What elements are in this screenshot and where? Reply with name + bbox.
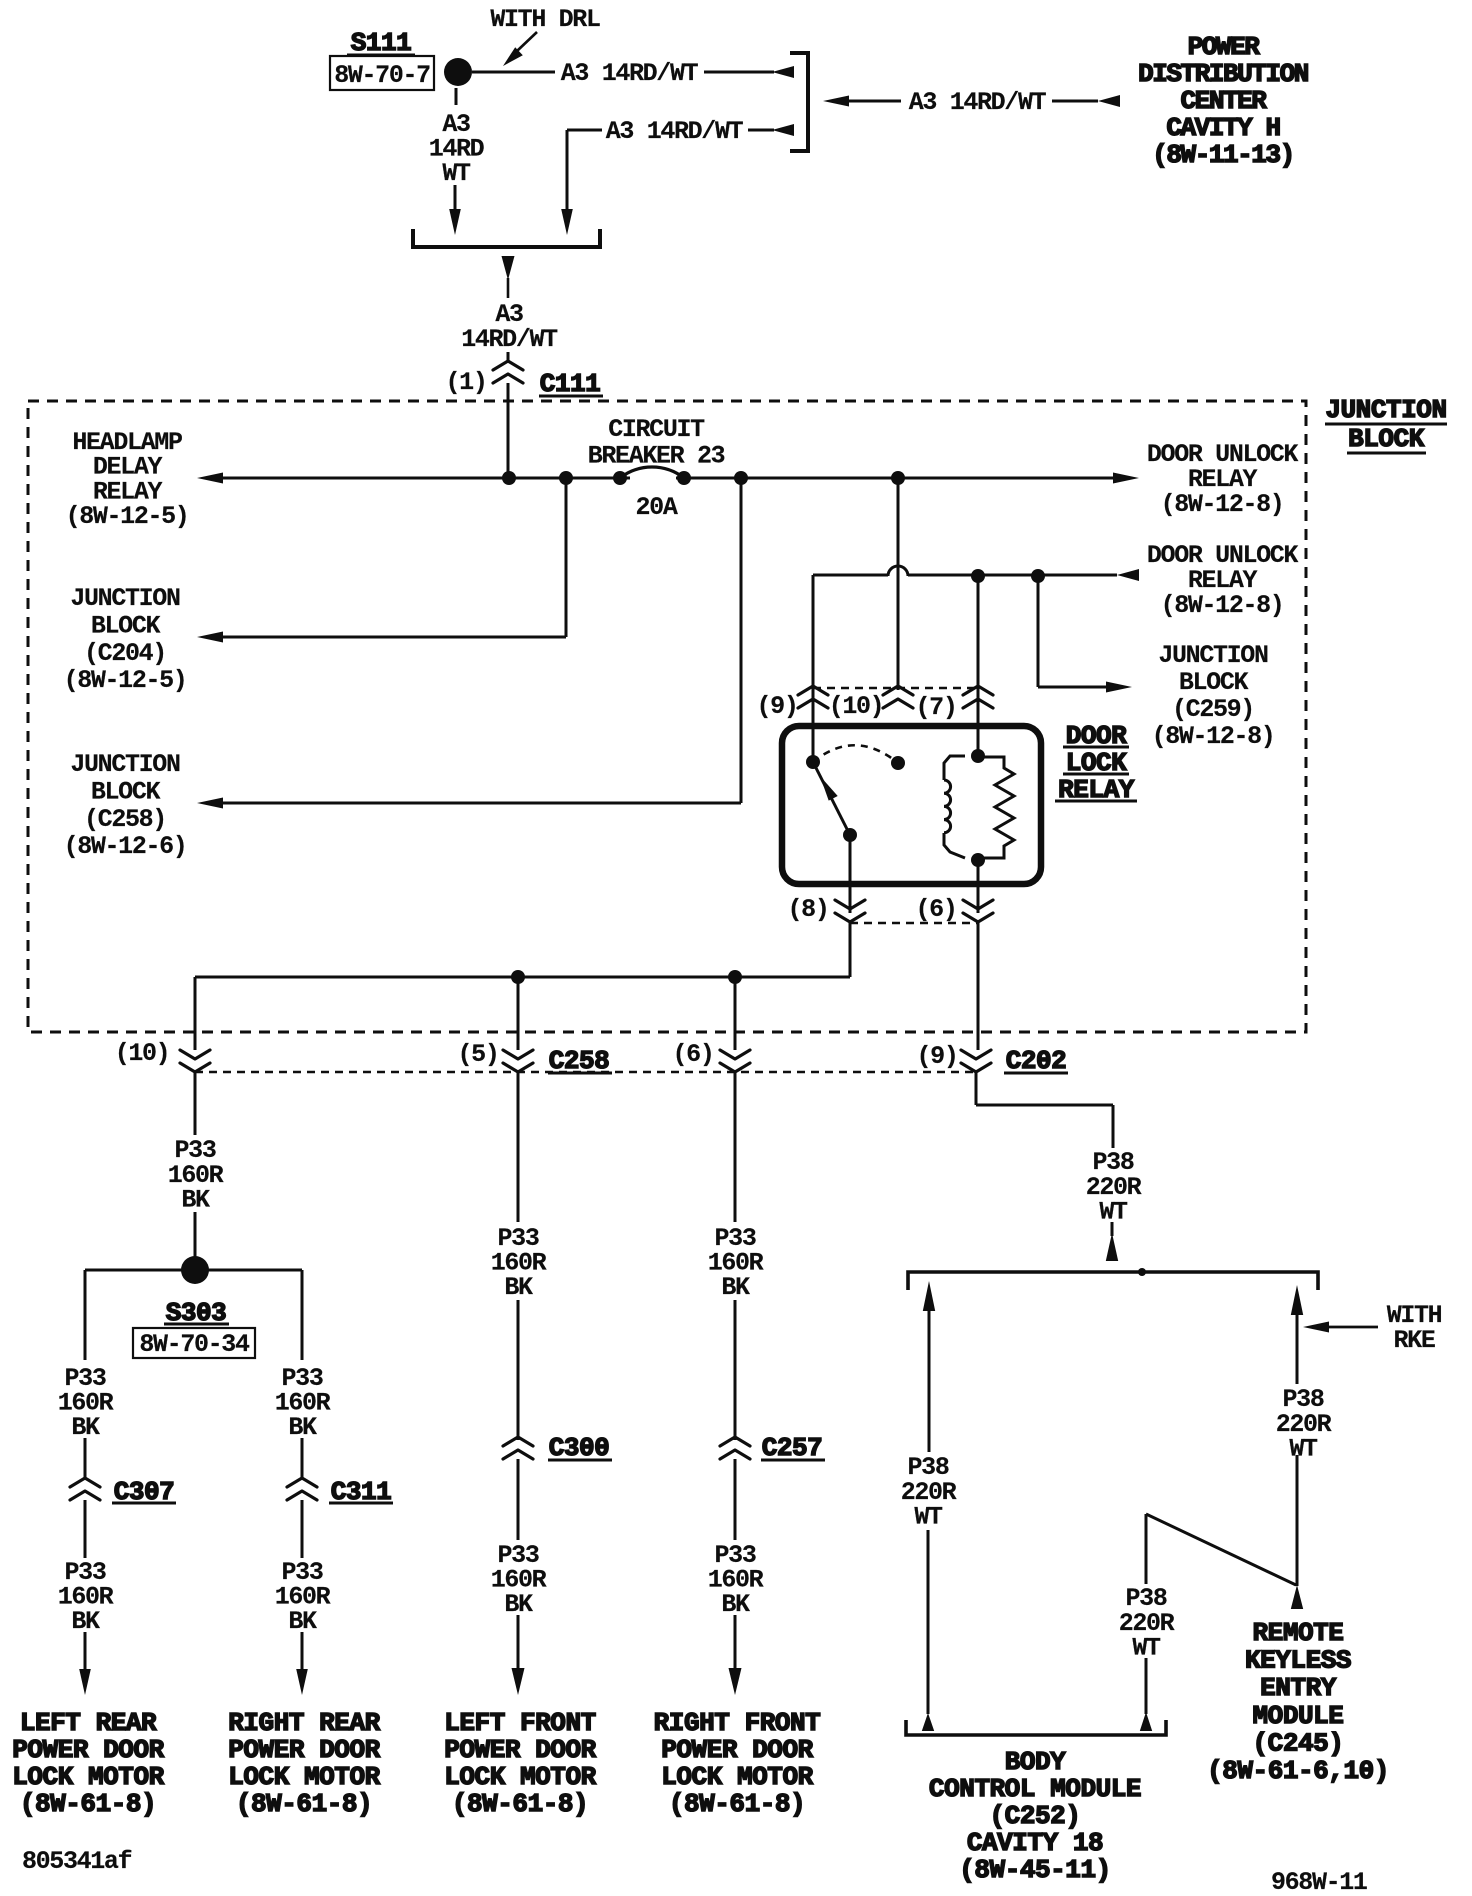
junction dot bus2/C257	[728, 970, 742, 984]
splice S111	[444, 58, 472, 86]
wire RKE branch upper	[1296, 1315, 1299, 1384]
junction dot feed/coil branch	[971, 569, 985, 583]
connector pin 10 symbol C258	[180, 1050, 210, 1072]
junction dot bus2/C258	[511, 970, 525, 984]
svg-text:20A: 20A	[636, 493, 678, 522]
svg-text:(8W-11-13): (8W-11-13)	[1152, 140, 1294, 170]
svg-text:(10): (10)	[829, 692, 884, 721]
wire to right front motor	[734, 1615, 737, 1670]
label DOOR UNLOCK RELAY 1	[1147, 440, 1299, 519]
connector pin 6 symbol	[963, 900, 993, 922]
svg-text:CENTER: CENTER	[1181, 86, 1268, 116]
label POWER DISTRIBUTION CENTER CAVITY H	[1138, 32, 1308, 170]
svg-text:RIGHT REAR: RIGHT REAR	[228, 1708, 380, 1738]
wire label P38 220R WT rke	[1276, 1385, 1332, 1464]
underline C300	[548, 1459, 612, 1462]
underline C258	[548, 1072, 612, 1075]
svg-text:(5): (5)	[458, 1040, 499, 1069]
arrowhead WITH DRL	[503, 47, 523, 66]
crossover hump on unlock feed wire	[888, 566, 908, 576]
svg-text:(8W-12-8): (8W-12-8)	[1161, 591, 1284, 620]
svg-text:LEFT REAR: LEFT REAR	[20, 1708, 157, 1738]
svg-text:POWER DOOR: POWER DOOR	[661, 1735, 813, 1765]
svg-text:KEYLESS: KEYLESS	[1245, 1646, 1351, 1676]
wire stub below splice S111	[455, 88, 458, 105]
label LEFT REAR POWER DOOR LOCK MOTOR	[12, 1708, 164, 1819]
wire bus2 to connector 10	[194, 977, 197, 1050]
svg-text:(C259): (C259)	[1172, 695, 1254, 724]
label JUNCTION BLOCK C258	[64, 750, 187, 861]
wire C202 jog right	[976, 1104, 1113, 1107]
arrowhead to left rear motor	[79, 1669, 91, 1695]
svg-text:(8W-61-8): (8W-61-8)	[236, 1789, 372, 1819]
svg-text:(8W-61-8): (8W-61-8)	[20, 1789, 156, 1819]
svg-text:POWER: POWER	[1188, 32, 1261, 62]
relay DOOR LOCK RELAY outline	[782, 726, 1041, 884]
wire to junction block C259	[1038, 686, 1106, 689]
wire down to C258 corner	[740, 478, 743, 803]
splice S303	[181, 1256, 209, 1284]
wire relay pin 8 down	[849, 835, 852, 913]
underline C307	[112, 1502, 176, 1505]
wire label P33 160R BK left front upper	[491, 1224, 547, 1302]
leader line WITH RKE	[1315, 1326, 1378, 1329]
wire connector 5 to P33 label	[517, 1072, 520, 1222]
svg-text:(6): (6)	[916, 895, 957, 924]
junction dot C111/bus	[502, 471, 516, 485]
wire RKE branch lower	[1296, 1455, 1299, 1586]
svg-text:POWER DOOR: POWER DOOR	[444, 1735, 596, 1765]
junction dot bus/C204 branch	[559, 471, 573, 485]
connector C300 symbol	[503, 1437, 533, 1459]
splice S303 branch bar	[85, 1269, 302, 1272]
connector C111 symbol	[493, 361, 523, 383]
wire to left rear motor	[84, 1632, 87, 1670]
svg-text:BLOCK: BLOCK	[1348, 424, 1425, 454]
underline BLOCK	[1347, 452, 1426, 455]
underline LOCK	[1063, 773, 1129, 776]
wire S303 right branch down	[301, 1270, 304, 1360]
svg-text:A3 14RD/WT: A3 14RD/WT	[909, 88, 1047, 117]
terminal arrowhead from door unlock relay 2	[1117, 569, 1139, 581]
svg-text:A3 14RD/WT: A3 14RD/WT	[606, 117, 744, 146]
wire C202 down	[975, 1072, 978, 1105]
arrowhead to right rear motor	[296, 1669, 308, 1695]
connector pin 5 symbol C258	[503, 1050, 533, 1072]
svg-text:WITH DRL: WITH DRL	[490, 5, 600, 34]
svg-text:JUNCTION: JUNCTION	[70, 750, 180, 779]
bus wire y478	[223, 477, 1113, 480]
svg-text:805341af: 805341af	[22, 1847, 132, 1876]
arrowhead at bracket PDC wire	[823, 96, 849, 107]
label JUNCTION BLOCK C204	[64, 584, 187, 695]
wire A3 down left	[454, 185, 457, 211]
svg-text:BK: BK	[288, 1413, 317, 1442]
connector C257 symbol	[720, 1437, 750, 1459]
underline C202	[1004, 1072, 1068, 1075]
svg-text:CONTROL MODULE: CONTROL MODULE	[929, 1774, 1141, 1804]
label JUNCTION BLOCK C259	[1152, 641, 1275, 751]
wire C311 down	[301, 1500, 304, 1558]
wire down to relay pin 7	[977, 576, 980, 756]
label RIGHT REAR POWER DOOR LOCK MOTOR	[228, 1708, 380, 1819]
arrowhead to junction block C259	[1106, 682, 1132, 693]
svg-text:BK: BK	[71, 1607, 100, 1636]
connector bracket to power distribution center	[790, 53, 808, 151]
wire label P33 160R BK right front upper	[708, 1224, 764, 1302]
wire corner A3 branch 2 horizontal	[567, 129, 602, 132]
diagonal wire BCM to RKE node	[1146, 1514, 1296, 1585]
body control module bracket	[906, 1720, 1166, 1735]
wire down to relay pin 9	[812, 575, 815, 762]
svg-text:(C204): (C204)	[84, 639, 166, 668]
svg-text:(8W-61-8): (8W-61-8)	[669, 1789, 805, 1819]
svg-text:(8W-12-5): (8W-12-5)	[64, 666, 187, 695]
wire A3 splice to label	[472, 71, 555, 74]
svg-text:WT: WT	[1099, 1198, 1128, 1227]
svg-text:CAVITY 18: CAVITY 18	[967, 1828, 1103, 1858]
svg-text:POWER DOOR: POWER DOOR	[12, 1735, 164, 1765]
svg-text:(6): (6)	[673, 1040, 714, 1069]
label REMOTE KEYLESS ENTRY MODULE	[1207, 1618, 1389, 1786]
wire label P38 220R WT c202	[1086, 1148, 1142, 1227]
relay name DOOR LOCK RELAY	[1058, 721, 1135, 805]
wire bus2 to connector 5	[517, 977, 520, 1050]
svg-text:BLOCK: BLOCK	[91, 777, 161, 806]
connector pin 8 symbol	[835, 900, 865, 922]
wire bus2 to connector 6	[734, 977, 737, 1050]
arrowhead to door unlock relay 1	[1113, 473, 1139, 484]
wire label P38 220R WT bcm left	[901, 1453, 957, 1532]
label RIGHT FRONT POWER DOOR LOCK MOTOR	[654, 1708, 821, 1819]
wire BCM branch upper	[928, 1311, 931, 1452]
svg-text:(8W-12-5): (8W-12-5)	[66, 502, 189, 531]
label BODY CONTROL MODULE	[929, 1747, 1141, 1885]
svg-text:(9): (9)	[757, 692, 798, 721]
relay connector dashed line bottom	[850, 922, 978, 925]
wire pin 6 to C202	[977, 922, 980, 1050]
svg-text:(8W-12-6): (8W-12-6)	[64, 832, 187, 861]
label HEADLAMP DELAY RELAY	[66, 428, 189, 531]
label DOOR UNLOCK RELAY 2	[1147, 541, 1299, 620]
wire BCM branch lower	[927, 1530, 930, 1714]
connector pin 9 symbol	[798, 686, 828, 708]
svg-text:LOCK MOTOR: LOCK MOTOR	[12, 1762, 164, 1792]
svg-text:(C245): (C245)	[1253, 1728, 1344, 1758]
connector C311 symbol	[287, 1478, 317, 1500]
svg-text:(C252): (C252)	[990, 1801, 1081, 1831]
arrowhead WITH RKE	[1303, 1322, 1329, 1333]
svg-text:CAVITY H: CAVITY H	[1166, 113, 1279, 143]
svg-text:BK: BK	[721, 1590, 750, 1619]
svg-text:POWER DOOR: POWER DOOR	[228, 1735, 380, 1765]
svg-text:LEFT FRONT: LEFT FRONT	[444, 1708, 596, 1738]
underline DOOR	[1063, 746, 1129, 749]
svg-text:968W-11: 968W-11	[1271, 1868, 1367, 1896]
connector C307 symbol	[70, 1478, 100, 1500]
underline C311	[329, 1502, 393, 1505]
arrowhead to junction block C204	[197, 632, 223, 643]
relay contact travel dashed arc	[813, 745, 898, 763]
svg-text:8W-70-7: 8W-70-7	[334, 61, 430, 90]
arrowhead A3 into bracket left	[449, 209, 461, 235]
connector dashed line C258/C202 row	[195, 1071, 976, 1074]
wire to left front motor	[517, 1615, 520, 1670]
wire down to C259 corner	[1037, 576, 1040, 687]
wire label P38 220R WT bcm right	[1119, 1584, 1175, 1663]
svg-text:LOCK MOTOR: LOCK MOTOR	[228, 1762, 380, 1792]
arrowhead out of bracket	[502, 256, 515, 280]
svg-text:(8W-12-8): (8W-12-8)	[1161, 490, 1284, 519]
wire connector 6 to P33 label	[734, 1072, 737, 1222]
wire down to P38 label	[1112, 1105, 1115, 1148]
relay coil bottom node dot	[971, 853, 985, 867]
svg-text:BK: BK	[71, 1413, 100, 1442]
breaker terminal dot right	[677, 471, 691, 485]
wire to right rear motor	[301, 1632, 304, 1670]
wire A3 down right	[566, 130, 569, 211]
wire to junction block C204	[223, 636, 566, 639]
svg-text:MODULE: MODULE	[1253, 1701, 1344, 1731]
wire connector 10 to P33 label	[194, 1072, 197, 1135]
svg-text:JUNCTION: JUNCTION	[1158, 641, 1268, 670]
svg-text:LOCK MOTOR: LOCK MOTOR	[661, 1762, 813, 1792]
wire label P33 160R BK left rear upper	[58, 1364, 114, 1442]
wire BCM right branch upper	[1145, 1514, 1148, 1584]
svg-text:BLOCK: BLOCK	[1179, 668, 1249, 697]
door unlock relay feed wire right	[908, 574, 1117, 577]
svg-text:(C258): (C258)	[84, 805, 166, 834]
svg-text:WT: WT	[442, 159, 471, 188]
wire down to C204	[565, 478, 568, 637]
door unlock relay feed wire left	[813, 574, 888, 577]
junction block dashed border	[28, 401, 1306, 1032]
wire to junction block C258	[223, 802, 741, 805]
wire C307 down	[84, 1500, 87, 1558]
relay coil top node dot	[971, 749, 985, 763]
svg-text:BK: BK	[504, 1590, 533, 1619]
arrowhead on relay blade	[820, 776, 838, 801]
terminal arrowhead A3 wire 1 at bracket	[772, 66, 794, 78]
underline C257	[761, 1459, 825, 1462]
branch arrowhead up at bracket left	[923, 1281, 935, 1311]
wire label P33 160R BK right front lower	[708, 1541, 764, 1619]
underline JUNCTION	[1325, 423, 1447, 426]
branch arrowhead up at bracket right	[1291, 1285, 1303, 1315]
svg-text:A3 14RD/WT: A3 14RD/WT	[561, 59, 699, 88]
wire relay pin 6 down	[977, 860, 980, 913]
junction dot bus/C258 branch	[734, 471, 748, 485]
svg-text:CIRCUIT: CIRCUIT	[608, 415, 705, 444]
svg-text:RIGHT FRONT: RIGHT FRONT	[654, 1708, 821, 1738]
wire A3 to PDC left segment	[849, 100, 901, 103]
junction block title	[1325, 395, 1446, 454]
arrowhead to headlamp delay relay	[197, 473, 223, 484]
arrowhead to junction block C258	[197, 798, 223, 809]
junction dot bus/pin10 branch	[891, 471, 905, 485]
svg-text:(8W-12-8): (8W-12-8)	[1152, 722, 1275, 751]
relay contact dot pin 10	[891, 756, 905, 770]
junction dot feed/C259 branch	[1031, 569, 1045, 583]
wire to connector C307	[84, 1438, 87, 1480]
terminal arrowhead at PDC	[1098, 95, 1120, 107]
svg-text:(8W-45-11): (8W-45-11)	[959, 1855, 1111, 1885]
wire C111 to junction block bus	[507, 383, 510, 478]
breaker terminal dot left	[613, 471, 627, 485]
svg-text:ENTRY: ENTRY	[1260, 1673, 1337, 1703]
svg-text:BK: BK	[181, 1186, 210, 1215]
wire label A3 14RD/WT into C111	[461, 300, 558, 354]
wire to connector C300	[517, 1300, 520, 1440]
wire to connector C311	[301, 1438, 304, 1480]
wire into connector C111	[507, 352, 510, 361]
relay coil shunt resistor	[978, 757, 1014, 858]
terminal arrowhead P38 at bracket	[1106, 1233, 1118, 1261]
relay common contact dot pin 9	[806, 755, 820, 769]
relay coil	[944, 756, 965, 858]
svg-text:8W-70-34: 8W-70-34	[139, 1330, 250, 1359]
svg-text:LOCK MOTOR: LOCK MOTOR	[444, 1762, 596, 1792]
wire label P33 160R BK col1	[168, 1136, 224, 1215]
circuit breaker 23 symbol	[620, 467, 684, 486]
wire label P33 160R BK left front lower	[491, 1541, 547, 1619]
terminal arrowhead A3 wire 2 at bracket	[772, 124, 794, 136]
svg-text:REMOTE: REMOTE	[1253, 1618, 1344, 1648]
svg-text:(10): (10)	[115, 1039, 170, 1068]
wire label P33 160R BK right rear upper	[275, 1364, 331, 1442]
svg-text:(8): (8)	[788, 895, 829, 924]
door lock distribution bus	[195, 976, 850, 979]
svg-text:(7): (7)	[916, 693, 957, 722]
underline RELAY	[1055, 800, 1137, 803]
label CIRCUIT BREAKER 23	[588, 415, 725, 471]
svg-text:BODY: BODY	[1005, 1747, 1066, 1777]
svg-text:WT: WT	[914, 1503, 943, 1532]
svg-text:(1): (1)	[446, 368, 487, 397]
svg-text:BK: BK	[721, 1273, 750, 1302]
reference box 8W-70-34	[133, 1328, 255, 1358]
reference box 8W-70-7	[330, 56, 434, 90]
wire P38 to bracket	[1111, 1222, 1114, 1236]
wire label A3 14RD WT stack	[429, 110, 485, 188]
leader line WITH DRL	[517, 32, 537, 51]
wire pin 8 to distribution bus	[849, 922, 852, 977]
svg-text:DISTRIBUTION: DISTRIBUTION	[1138, 59, 1308, 89]
connector pin 9 symbol C202	[961, 1050, 991, 1072]
junction dot on bracket	[1138, 1268, 1146, 1276]
wire C300 down	[517, 1459, 520, 1540]
wire C257 down	[734, 1459, 737, 1540]
svg-text:14RD/WT: 14RD/WT	[461, 325, 558, 354]
svg-text:(8W-61-6,10): (8W-61-6,10)	[1207, 1756, 1389, 1786]
relay switch blade	[813, 762, 850, 835]
underline S111	[347, 54, 415, 57]
underline S303	[164, 1323, 229, 1326]
wire bus to relay pin 10	[897, 478, 900, 690]
terminal arrowhead at BCM left	[922, 1713, 934, 1731]
wire A3 branch 2 to bracket	[748, 129, 774, 132]
svg-text:WT: WT	[1289, 1435, 1318, 1464]
relay connector dashed line top	[813, 687, 978, 690]
collector bracket under A3 feeds	[413, 229, 600, 247]
relay blade pivot dot pin 8	[843, 828, 857, 842]
wire S303 left branch down	[84, 1270, 87, 1360]
svg-text:(8W-61-8): (8W-61-8)	[452, 1789, 588, 1819]
wire to connector C257	[734, 1300, 737, 1440]
connector pin 6 symbol C258	[720, 1050, 750, 1072]
wire A3 label to bracket	[704, 71, 774, 74]
svg-text:(9): (9)	[917, 1042, 958, 1071]
wire P33 to splice S303	[194, 1212, 197, 1258]
svg-text:JUNCTION: JUNCTION	[70, 584, 180, 613]
arrowhead A3 into bracket right	[561, 209, 573, 235]
arrowhead to right front motor	[729, 1668, 742, 1695]
wire label P33 160R BK left rear lower	[58, 1558, 114, 1636]
connector pin 7 symbol	[963, 686, 993, 708]
svg-text:RKE: RKE	[1394, 1326, 1435, 1355]
svg-text:BLOCK: BLOCK	[91, 611, 161, 640]
svg-text:BK: BK	[288, 1607, 317, 1636]
wire A3 to PDC right segment	[1052, 100, 1098, 103]
connector pin 10 symbol	[883, 686, 913, 708]
svg-text:JUNCTION: JUNCTION	[1325, 395, 1446, 425]
wire BCM right branch lower	[1145, 1658, 1148, 1714]
arrowhead to left front motor	[512, 1668, 525, 1695]
terminal arrowhead at RKE module	[1291, 1585, 1303, 1609]
distribution bracket to BCM and RKE	[908, 1272, 1318, 1290]
svg-text:BK: BK	[504, 1273, 533, 1302]
label LEFT FRONT POWER DOOR LOCK MOTOR	[444, 1708, 596, 1819]
wire bracket to A3 label	[507, 278, 510, 298]
wire label P33 160R BK right rear lower	[275, 1558, 331, 1636]
underline C111	[539, 395, 603, 398]
terminal arrowhead at BCM right	[1140, 1712, 1152, 1731]
